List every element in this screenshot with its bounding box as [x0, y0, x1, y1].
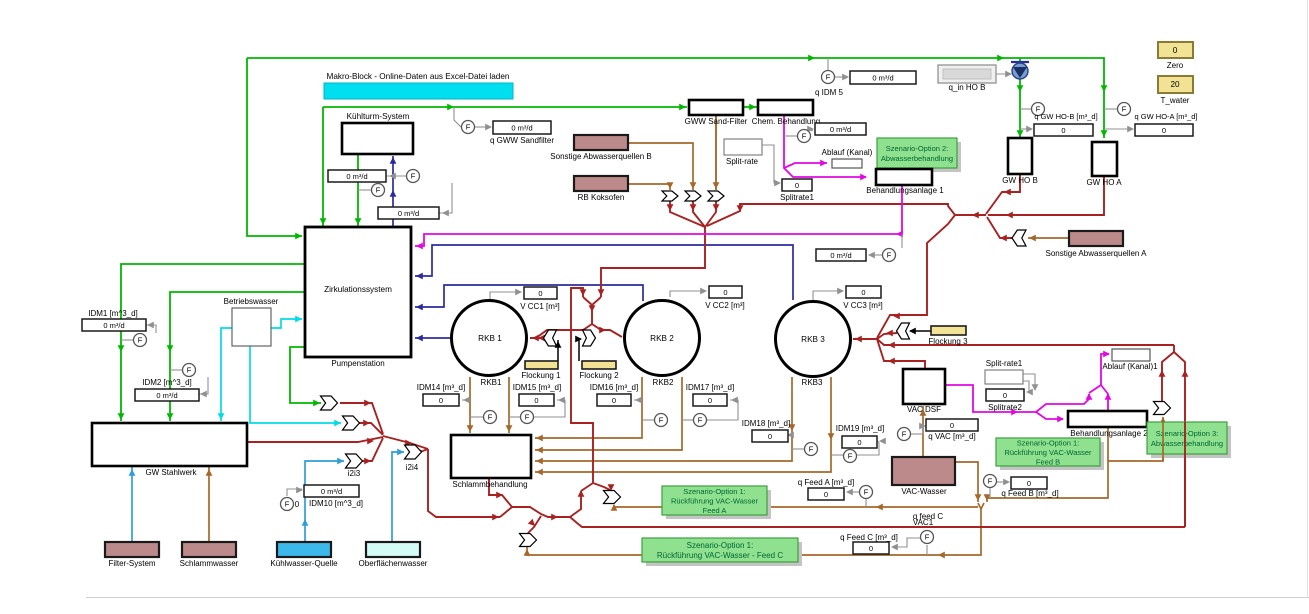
meter F Kuehlturm 1: [407, 170, 420, 183]
pump symbol: [1011, 61, 1029, 63]
svg-text:RKB2: RKB2: [653, 378, 674, 387]
wire red recycle riser x571: [571, 288, 593, 483]
svg-text:Szenario-Option 2:: Szenario-Option 2:: [886, 144, 949, 153]
wire brown Behandlungsanlage 2 bottom loop via Szenario 3: [987, 417, 1163, 498]
svg-text:Behandlungsanlage 1: Behandlungsanlage 1: [866, 186, 944, 195]
wire red GW HO A return y215: [988, 176, 1104, 215]
display q GW HO-A: [1135, 124, 1193, 136]
gray Split-rate to Splitrate1: [762, 145, 780, 183]
svg-text:IDM16 [m³_d]: IDM16 [m³_d]: [590, 383, 638, 392]
wire red Schlammbehandlung bottom output: [489, 478, 512, 507]
wire brown RKB2 bottom right into Schlammbehandlung: [535, 377, 682, 450]
svg-text:Zirkulationssystem: Zirkulationssystem: [324, 285, 392, 294]
constant T_water: [1158, 76, 1193, 93]
svg-text:0 m³/d: 0 m³/d: [511, 124, 532, 133]
meter F IDM15: [521, 411, 534, 424]
wire red goto i2i4 output to merge: [420, 449, 428, 452]
wire brown merge to Feed C loop y555: [978, 503, 984, 509]
svg-text:Flockung 1: Flockung 1: [521, 371, 561, 380]
wire red merge output: [383, 436, 428, 449]
wire green y107 branch down into Zirkulationssystem top: [322, 107, 324, 226]
gray taps IDM18 IDM19: [786, 434, 792, 436]
svg-text:RKB 2: RKB 2: [650, 334, 674, 343]
gray tap Kuehlturm displays: [386, 175, 406, 177]
svg-text:F: F: [925, 533, 930, 542]
display q GW HO-B: [1034, 124, 1093, 136]
block VAC DSF: [903, 369, 945, 404]
meter F q Feed A: [860, 486, 873, 499]
meter F q VAC: [898, 428, 911, 441]
svg-text:0: 0: [768, 432, 772, 441]
svg-text:0: 0: [869, 544, 873, 553]
gray taps IDM14-IDM17: [462, 399, 470, 401]
block GW HO A: [1092, 142, 1117, 176]
from tag VAC1 right: [1154, 402, 1171, 415]
black Flockung 1 hook: [557, 340, 559, 361]
svg-text:Betriebswasser: Betriebswasser: [224, 297, 279, 306]
meter F q Feed B: [984, 475, 997, 488]
gray tap q GWW Sandfilter: [454, 107, 461, 127]
svg-text:V CC1 [m³]: V CC1 [m³]: [520, 302, 560, 311]
svg-text:0 m³/d: 0 m³/d: [830, 125, 851, 134]
meter F Chem meter: [798, 130, 811, 143]
meter F IDM1: [134, 334, 147, 347]
svg-text:Splitrate2: Splitrate2: [988, 403, 1022, 412]
circle RKB 2: [625, 301, 700, 376]
display q GWW Sandfilter: [493, 121, 551, 134]
svg-text:F: F: [525, 413, 530, 422]
svg-text:q GWW Sandfilter: q GWW Sandfilter: [490, 136, 554, 145]
svg-text:IDM1 [m^3_d]: IDM1 [m^3_d]: [88, 309, 138, 318]
meter F magenta meter: [883, 249, 896, 262]
svg-text:Flockung 2: Flockung 2: [579, 371, 619, 380]
gray tap IDM10: [287, 489, 302, 496]
svg-text:GW HO B: GW HO B: [1002, 176, 1038, 185]
block VAC-Wasser: [892, 457, 955, 485]
wire red Sonstige A from-tag output: [987, 217, 1014, 238]
wire cyan Betriebswasser right to Zirkulationssystem: [271, 319, 302, 328]
wire brown Schlammwasser up to GW Stahlwerk: [208, 467, 210, 542]
gray tap q Feed B: [989, 488, 991, 498]
wire green Kuehlturm-System down to Zirkulationssystem: [357, 154, 359, 226]
block Makro cyan bar: [324, 83, 513, 99]
display Ablauf Kanal 1: [1112, 349, 1150, 361]
goto tag i2i1: [321, 396, 338, 410]
svg-text:RKB3: RKB3: [802, 378, 823, 387]
wire red goto i2i2 output to merge: [359, 423, 383, 435]
display q VAC: [926, 419, 978, 431]
svg-text:i2i4: i2i4: [406, 463, 419, 472]
constant Flockung 2: [582, 361, 616, 369]
wire green Zirkulationssystem y264 to GW Stahlwerk: [121, 264, 304, 421]
svg-text:0: 0: [795, 181, 799, 190]
canvas edge lines: [86, 597, 1309, 599]
svg-text:Ablauf (Kanal): Ablauf (Kanal): [822, 148, 873, 157]
svg-text:Kühlwasser-Quelle: Kühlwasser-Quelle: [270, 559, 338, 568]
svg-text:0 m³/d: 0 m³/d: [156, 391, 177, 400]
block GW HO B: [1008, 138, 1032, 174]
gray Split-rate1 to Splitrate2: [1023, 374, 1035, 390]
display Splitrate1: [782, 179, 812, 191]
wire green Zirkulationssystem y347 to goto tag i2i1: [290, 347, 321, 403]
svg-text:Schlammbehandlung: Schlammbehandlung: [452, 480, 527, 489]
svg-text:RKB1: RKB1: [481, 378, 502, 387]
wire green Zirkulationssystem y292 to GW Stahlwerk: [170, 292, 304, 421]
wire red split right into RKB2: [592, 324, 622, 337]
svg-text:0: 0: [538, 289, 542, 298]
wire cyan Betriebswasser left down to GW Stahlwerk: [221, 328, 232, 421]
svg-text:0 m³/d: 0 m³/d: [103, 321, 124, 330]
wire brown return feed y498 junction down: [986, 498, 988, 502]
meter F q GW HO-A: [1118, 103, 1131, 116]
goto tag sources 3: [708, 191, 724, 201]
wire brown RKB2 bottom left into Schlammbehandlung: [535, 377, 642, 438]
svg-text:IDM2 [m^3_d]: IDM2 [m^3_d]: [142, 378, 192, 387]
svg-text:Zero: Zero: [1167, 61, 1184, 70]
svg-text:F: F: [466, 123, 471, 132]
wire red GW HO B return: [986, 174, 1020, 214]
goto tag i2i4: [405, 445, 422, 459]
meter F q GWW Sandfilter: [462, 121, 475, 134]
svg-text:F: F: [411, 172, 416, 181]
gray tap magenta B1 output meter: [901, 234, 903, 248]
svg-text:q Feed A [m³_d]: q Feed A [m³_d]: [798, 478, 854, 487]
svg-text:Sonstige Abwasserquellen A: Sonstige Abwasserquellen A: [1046, 249, 1148, 258]
svg-text:0: 0: [612, 396, 616, 405]
meter F IDM18: [805, 443, 818, 456]
svg-text:F: F: [887, 251, 892, 260]
from tag Feed B goto: [604, 491, 621, 504]
meter F IDM17: [694, 414, 707, 427]
wire brown RKB3 bottom left into Schlammbehandlung: [535, 377, 792, 461]
svg-text:VAC1: VAC1: [913, 518, 934, 527]
svg-text:Flockung 3: Flockung 3: [928, 337, 968, 346]
svg-text:IDM14 [m³_d]: IDM14 [m³_d]: [417, 383, 465, 392]
svg-text:GW Stahlwerk: GW Stahlwerk: [145, 468, 197, 477]
goto tag sources 1: [662, 191, 678, 201]
svg-text:q GW HO-A [m³_d]: q GW HO-A [m³_d]: [1135, 112, 1198, 121]
gray taps V CC1 V CC2 V CC3: [490, 292, 521, 300]
meter F IDM14: [484, 411, 497, 424]
from tag Flockung 2: [583, 330, 596, 346]
svg-text:q IDM 5: q IDM 5: [815, 88, 844, 97]
block Schlammbehandlung: [451, 435, 531, 478]
svg-text:T_water: T_water: [1161, 96, 1190, 105]
svg-text:Rückführung VAC-Wasser: Rückführung VAC-Wasser: [671, 497, 759, 506]
svg-text:F: F: [802, 132, 807, 141]
wire brown Behandlungsanlage 2 bottom stub: [1107, 426, 1109, 461]
block Kuehlwasser-Quelle: [277, 542, 331, 557]
svg-text:F: F: [659, 416, 664, 425]
wire brown RKB1 bottom right into Schlammbehandlung: [508, 377, 510, 433]
svg-text:Chem. Behandlung: Chem. Behandlung: [752, 117, 821, 126]
svg-text:F: F: [187, 366, 192, 375]
svg-text:VAC-Wasser: VAC-Wasser: [901, 487, 947, 496]
svg-text:Szenario-Option 3:: Szenario-Option 3:: [1156, 429, 1219, 438]
wire blue RKB1 left to Zirkulationssystem: [415, 337, 452, 339]
wire brown VAC-Wasser right output down: [955, 462, 978, 502]
wire red Flockung3 from-tag into RKB3 fan: [877, 333, 897, 339]
display IDM10: [304, 485, 359, 497]
gray tap q GW HO-B: [1020, 108, 1031, 110]
wire magenta split up branch to Ablauf Kanal 1: [1036, 394, 1089, 412]
block Schlammwasser: [182, 542, 236, 557]
svg-text:F: F: [285, 500, 290, 509]
gray tap IDM2: [170, 369, 182, 371]
svg-text:20: 20: [1170, 80, 1180, 89]
svg-text:F: F: [864, 488, 869, 497]
annotation Szenario-Option 1 Feed B box: [1000, 442, 1104, 470]
svg-text:RKB 1: RKB 1: [478, 334, 502, 343]
from tag Flockung 1: [544, 330, 557, 346]
gray tap 0 m3/d Chem Behandlung: [784, 135, 797, 137]
display Ablauf Kanal: [832, 159, 862, 168]
wire red split left into RKB1: [530, 324, 592, 338]
svg-text:i2i3: i2i3: [348, 469, 361, 478]
svg-text:q GW HO-B [m³_d]: q GW HO-B [m³_d]: [1034, 112, 1097, 121]
svg-text:IDM15 [m³_d]: IDM15 [m³_d]: [513, 383, 561, 392]
wire magenta Behandlungsanlage 1 to Zirkulationssystem: [415, 184, 902, 246]
svg-text:Abwasserbehandlung: Abwasserbehandlung: [881, 154, 953, 163]
block Filter-System: [105, 542, 159, 557]
wire red GW Stahlwerk output to merge: [247, 437, 383, 442]
block Behandlungsanlage 1: [876, 169, 932, 185]
wire blue RKB3 top to Zirkulationssystem: [415, 245, 793, 300]
wire brown Sonstige Abwasserquellen A to from tag: [1028, 237, 1069, 239]
svg-text:F: F: [488, 413, 493, 422]
svg-text:0: 0: [857, 438, 861, 447]
meter F q IDM 5: [822, 71, 835, 84]
wire brown RB Koksofen to goto tag: [628, 184, 670, 190]
meter F Kuehlturm 2: [372, 184, 385, 197]
wire brown RKB3 bottom right into Schlammbehandlung: [535, 377, 831, 472]
svg-text:Rückführung VAC-Wasser - Feed: Rückführung VAC-Wasser - Feed C: [657, 551, 783, 560]
svg-text:Szenario-Option 1:: Szenario-Option 1:: [1017, 438, 1080, 447]
block Split-rate: [724, 139, 762, 155]
svg-text:0: 0: [439, 396, 443, 405]
block Zirkulationssystem: [305, 227, 411, 357]
wire brown Feed B return y507 to from tag: [614, 505, 978, 507]
svg-text:0: 0: [824, 490, 828, 499]
svg-text:F: F: [376, 186, 381, 195]
svg-text:V CC3 [m³]: V CC3 [m³]: [843, 301, 883, 310]
svg-text:0: 0: [534, 396, 538, 405]
svg-text:F: F: [1122, 105, 1127, 114]
svg-text:q VAC [m³_d]: q VAC [m³_d]: [928, 432, 975, 441]
display 0 m3/d Kuehlturm 1: [328, 170, 386, 182]
block GW Stahlwerk: [92, 423, 247, 466]
svg-text:0: 0: [950, 421, 954, 430]
svg-text:F: F: [138, 336, 143, 345]
block Sonstige Abwasserquellen B: [574, 135, 628, 150]
wire red goto outputs fan into header: [670, 201, 705, 227]
display V CC3: [846, 286, 881, 298]
svg-text:Oberflächenwasser: Oberflächenwasser: [359, 559, 428, 568]
wire red Flockung1 from-tag into RKB1 fan: [536, 337, 544, 339]
gray tap IDM1: [121, 339, 133, 341]
display 0 m3/d magenta meter: [816, 249, 866, 261]
svg-text:0: 0: [1173, 46, 1178, 55]
goto tag i2i3: [346, 454, 363, 468]
block Behandlungsanlage 2: [1068, 411, 1147, 427]
wire brown VAC-Wasser up to VAC DSF: [922, 406, 924, 457]
constant Zero: [1158, 42, 1193, 58]
svg-text:F: F: [809, 445, 814, 454]
svg-text:Pumpenstation: Pumpenstation: [331, 359, 384, 368]
meter F IDM10: [281, 498, 294, 511]
svg-text:0: 0: [1003, 391, 1007, 400]
wire blue Zirkulationssystem up to Kuehlturm-System: [392, 156, 394, 227]
svg-text:q_in HO B: q_in HO B: [949, 83, 986, 92]
wire red riser overlay over Szenario 3 box: [1184, 422, 1186, 527]
display Splitrate2: [986, 389, 1024, 401]
wire red bottom merges to bus: [500, 507, 570, 517]
wire skyblue Oberflaechenwasser to goto tag i2i4: [392, 452, 404, 542]
svg-text:0 m³/d: 0 m³/d: [398, 209, 419, 218]
wire red header lower branch x927 to RKB3 fan: [877, 215, 955, 338]
wire red goto i2i1 output to merge: [340, 403, 383, 434]
svg-text:q Feed B [m³_d]: q Feed B [m³_d]: [1001, 489, 1058, 498]
svg-text:F: F: [848, 452, 853, 461]
svg-text:0 m³/d: 0 m³/d: [346, 172, 367, 181]
svg-text:Ablauf (Kanal)1: Ablauf (Kanal)1: [1102, 362, 1158, 371]
circle RKB 3: [776, 302, 851, 377]
block q_in HO B gray: [938, 65, 996, 83]
svg-text:0 m³/d: 0 m³/d: [872, 74, 893, 83]
wire red VAC DSF top line into RKB3 fan: [877, 339, 925, 369]
gray tap q Feed A: [865, 499, 867, 507]
wire red header upper branch y204 to chevron fan: [707, 204, 955, 226]
svg-text:GW HO A: GW HO A: [1086, 178, 1122, 187]
wire green loop x247 into Zirkulationssystem left: [247, 58, 302, 236]
display V CC1: [524, 287, 557, 299]
wire magenta VAC DSF to Behandlungsanlage 2: [943, 385, 1036, 412]
constant Flockung 3: [931, 326, 966, 335]
gray tap q IDM 5: [827, 58, 829, 70]
wire brown Sonstige Abwasserquellen B to goto tag: [628, 143, 693, 190]
block Sonstige Abwasserquellen A: [1069, 231, 1123, 246]
display V CC2: [709, 286, 742, 298]
annotation Szenario-Option 1 Feed A box: [666, 490, 771, 519]
wire red return header X to split: [955, 214, 986, 216]
svg-text:Makro-Block - Online-Daten aus: Makro-Block - Online-Daten aus Excel-Dat…: [327, 72, 510, 81]
wire skyblue Kuehlwasser-Quelle to goto tag i2i3: [305, 461, 344, 542]
svg-text:0: 0: [708, 396, 712, 405]
wire brown RKB1 bottom left into Schlammbehandlung: [469, 377, 471, 433]
svg-text:Schlammwasser: Schlammwasser: [180, 559, 239, 568]
black Flockung 3 link: [910, 330, 931, 332]
meter F IDM19: [844, 450, 857, 463]
svg-text:0 m³/d: 0 m³/d: [830, 251, 851, 260]
svg-text:Sonstige Abwasserquellen B: Sonstige Abwasserquellen B: [550, 152, 651, 161]
wire red Feed C from-tag output up to bus: [528, 516, 541, 533]
display 0 m3/d Kuehlturm 2: [378, 207, 439, 219]
svg-text:VAC DSF: VAC DSF: [907, 405, 941, 414]
wire red bottom bus y527: [570, 517, 1185, 527]
meter F q GW HO-B: [1032, 103, 1045, 116]
wire red fan down to RKB1 RKB2 Y split: [601, 227, 705, 297]
wire red goto i2i3 output to merge: [362, 438, 383, 461]
annotation Szenario-Option 2 box: [881, 142, 961, 172]
goto tag i2i2: [343, 416, 360, 430]
wire magenta Chem. Behandlung down split: [784, 115, 866, 177]
black Flockung 2 hook: [579, 339, 581, 361]
display q IDM 5: [850, 71, 916, 84]
svg-text:Feed A: Feed A: [703, 506, 727, 515]
svg-text:F: F: [698, 416, 703, 425]
annotation Szenario-Option 1 Feed C box: [646, 542, 802, 566]
svg-text:0: 0: [1162, 126, 1166, 135]
wire red bottom bus up branch to recycle peak: [570, 491, 581, 517]
svg-text:F: F: [826, 73, 831, 82]
svg-text:Kühlturm-System: Kühlturm-System: [347, 112, 410, 121]
svg-text:q Feed C [m³_d]: q Feed C [m³_d]: [840, 533, 898, 542]
svg-text:V CC2 [m³]: V CC2 [m³]: [705, 301, 745, 310]
meter F IDM2: [183, 364, 196, 377]
wire red recycle peak split to VAC1 goto: [581, 483, 610, 491]
block GWW Sand-Filter: [689, 100, 743, 115]
wire red right riser pair to y345: [1162, 345, 1174, 404]
display q Feed B: [1011, 477, 1047, 489]
svg-text:IDM18 [m³_d]: IDM18 [m³_d]: [742, 419, 790, 428]
constant Flockung 1: [525, 361, 558, 369]
svg-text:IDM17 [m³_d]: IDM17 [m³_d]: [686, 383, 734, 392]
wire red y345 return into RKB3 fan: [877, 339, 1174, 345]
wire blue RKB2 top to Zirkulationssystem: [415, 285, 643, 307]
wire green pump branch down to GW HO B: [1019, 58, 1021, 137]
wire green header y107 to GWW Sand-Filter: [323, 106, 687, 108]
svg-text:IDM19 [m³_d]: IDM19 [m³_d]: [836, 424, 884, 433]
svg-text:Behandlungsanlage 2: Behandlungsanlage 2: [1070, 429, 1148, 438]
svg-text:Splitrate1: Splitrate1: [780, 193, 814, 202]
svg-text:Split-rate: Split-rate: [726, 157, 759, 166]
wire red recycle branch into Y: [583, 297, 592, 305]
annotation Szenario-Option 3 box: [1151, 426, 1231, 458]
block Chem. Behandlung: [758, 100, 813, 115]
gray tap q VAC: [911, 433, 923, 435]
svg-text:Split-rate1: Split-rate1: [986, 359, 1023, 368]
block Oberflaechenwasser: [366, 542, 420, 557]
wire red merge down to bottom bus: [428, 449, 500, 517]
circle RKB 1: [452, 301, 527, 376]
meter F q Feed C: [921, 531, 934, 544]
gray tap q Feed C: [926, 545, 928, 555]
svg-text:Szenario-Option 1:: Szenario-Option 1:: [687, 541, 754, 550]
svg-text:0: 0: [723, 288, 727, 297]
from tag Flockung 3: [897, 323, 910, 339]
svg-text:0: 0: [861, 288, 865, 297]
gray q_in HO B to pump: [994, 73, 1011, 75]
gray tap q GW HO-A: [1104, 108, 1117, 110]
from tag Sonstige A: [1012, 230, 1026, 246]
wire brown overlay over Szenario 3 box: [1162, 422, 1164, 461]
wire magenta Behandlungsanlage 2 top to peak: [1101, 385, 1108, 411]
svg-text:0: 0: [295, 500, 300, 509]
goto tag sources 2: [685, 191, 701, 201]
block RB Koksofen: [574, 176, 628, 191]
svg-text:RB Koksofen: RB Koksofen: [578, 193, 625, 202]
svg-text:Filter-System: Filter-System: [108, 559, 155, 568]
svg-text:Feed B: Feed B: [1036, 458, 1060, 467]
svg-text:IDM10 [m^3_d]: IDM10 [m^3_d]: [309, 499, 363, 508]
svg-text:F: F: [988, 477, 993, 486]
wire brown GWW Sand-Filter bottom to goto tag: [715, 115, 717, 190]
svg-text:Szenario-Option 1:: Szenario-Option 1:: [683, 487, 746, 496]
wire green header y58 to GW HO A: [247, 58, 1104, 138]
wire skyblue Filter-System up to GW Stahlwerk: [131, 467, 133, 542]
svg-text:Abwasserbehandlung: Abwasserbehandlung: [1151, 439, 1223, 448]
wire green GWW Sand-Filter to Chem. Behandlung: [743, 106, 757, 108]
